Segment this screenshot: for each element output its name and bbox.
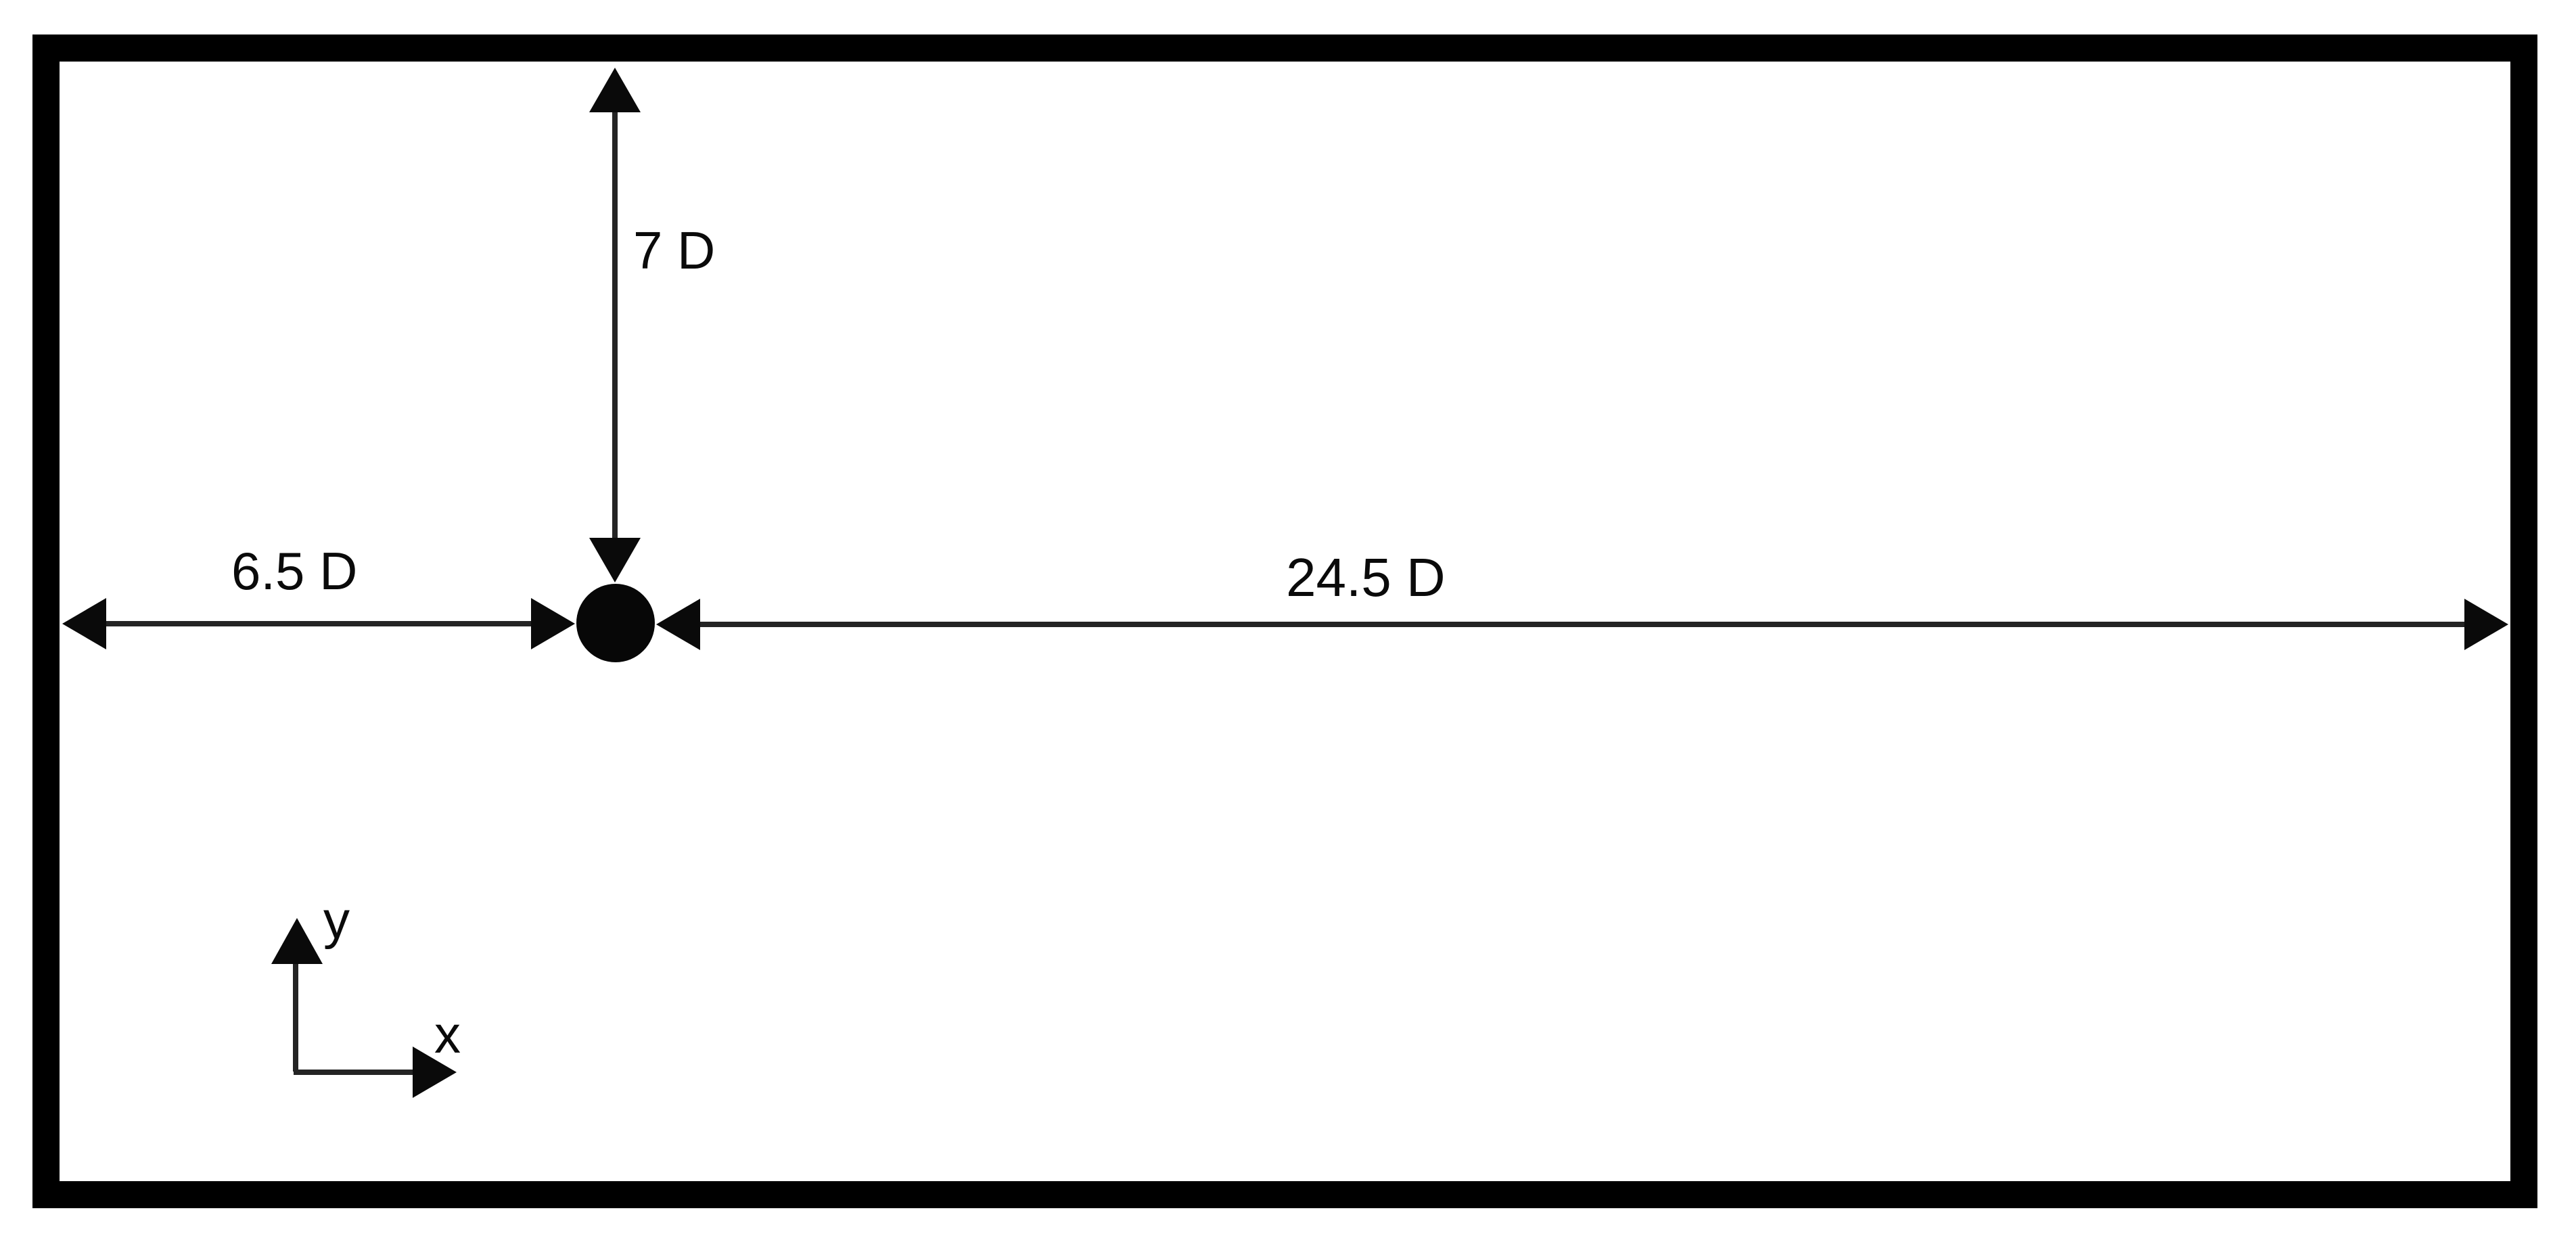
svg-text:24.5 D: 24.5 D (1286, 547, 1446, 607)
label "y" (323, 890, 350, 950)
label "6.5 D" (231, 541, 357, 601)
arrowhead: y axis (points up) (271, 918, 323, 964)
arrowhead: 6.5D right (points right to cylinder) (531, 598, 575, 649)
svg-text:x: x (434, 1005, 461, 1064)
label "x" (434, 1005, 461, 1064)
coordinate axes: y axis shaft (293, 961, 298, 1072)
arrowhead: 24.5D left (points left to cylinder) (656, 599, 700, 650)
svg-text:7 D: 7 D (633, 221, 715, 280)
wire: vertical dimension shaft 7D (612, 108, 618, 541)
arrowhead: 6.5D left (points left to inlet boundary) (62, 598, 106, 649)
label "24.5 D" (1286, 547, 1446, 607)
coordinate axes: x axis shaft (294, 1070, 414, 1075)
svg-text:y: y (323, 890, 350, 950)
cylinder (origin circle marker) (576, 584, 655, 662)
wire: left dimension shaft 6.5D (101, 621, 536, 626)
wire: right dimension shaft 24.5D (695, 622, 2469, 627)
arrowhead: 7D bottom (points down to cylinder) (589, 538, 641, 582)
arrowhead: 7D top (points up to top boundary) (589, 68, 641, 112)
arrowhead: 24.5D right (points right to outlet boundary) (2464, 599, 2508, 650)
svg-text:6.5 D: 6.5 D (231, 541, 357, 601)
arrowhead: x axis (points right) (413, 1047, 457, 1098)
label "7 D" (633, 221, 715, 280)
